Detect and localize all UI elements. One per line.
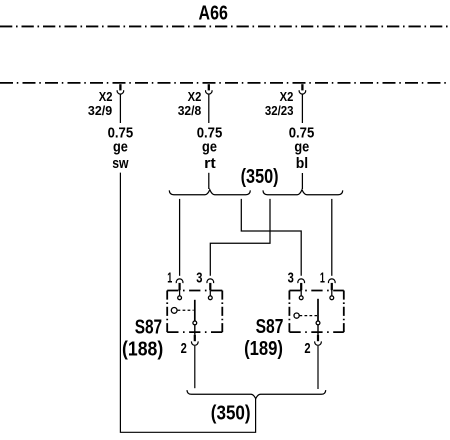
svg-text:S87: S87 <box>256 316 284 338</box>
S87(189) actuator pole circle <box>294 313 299 318</box>
S87(189) pin 3 lead into box <box>300 289 302 296</box>
switch S87(189) box left edge <box>288 291 290 333</box>
svg-text:(350): (350) <box>211 402 251 424</box>
S87(189) pin 2 tick <box>317 335 319 342</box>
switch S87(188) box left edge <box>166 291 168 333</box>
svg-text:X2: X2 <box>280 89 294 104</box>
switch S87(188) box top edge <box>167 290 222 292</box>
svg-text:1: 1 <box>320 270 325 287</box>
S87(188) actuator pole circle <box>171 308 177 314</box>
S87(188) pin 3 socket cap <box>207 279 214 283</box>
S87(188) pin 2 socket cup <box>191 341 198 345</box>
switch S87(188) box right edge <box>221 291 223 333</box>
S87(188) pin 3 lead into box <box>209 289 211 296</box>
svg-text:rt: rt <box>204 155 216 172</box>
switch S87(189) box top edge <box>289 290 343 292</box>
connector X2 pin 32/9 (pin tick) <box>119 84 121 90</box>
wire splice to S87(188) pin 3 (crossing) <box>210 199 270 276</box>
S87(188) arm contact circle <box>193 321 197 325</box>
svg-text:ge: ge <box>113 139 128 156</box>
svg-text:S87: S87 <box>135 317 162 339</box>
svg-text:1: 1 <box>167 270 172 287</box>
wire from X2 32/9 (upper segment) <box>119 95 121 124</box>
S87(189) pin 3 socket cap <box>298 279 305 283</box>
splice (350) right brace <box>263 190 343 195</box>
svg-text:32/8: 32/8 <box>178 103 202 118</box>
connector X2 pin 32/8 (socket cup) <box>205 90 212 94</box>
S87(189) pin 1 tick <box>331 283 333 290</box>
S87(188) pin 3 tick <box>209 283 211 290</box>
connector X2 pin 32/8 (pin tick) <box>208 84 210 90</box>
S87(188) pin 1 lead into box <box>179 289 181 296</box>
svg-text:(350): (350) <box>241 166 279 188</box>
harness / connector boundary line (dash-dot) <box>0 82 450 84</box>
svg-text:ge: ge <box>294 139 309 156</box>
svg-text:32/23: 32/23 <box>265 103 294 118</box>
wire ge/sw long run down, bottom run right, up to splice (350) tip <box>120 173 255 433</box>
S87(188) switch arm <box>194 300 196 321</box>
S87(189) pin 2 socket cup <box>315 341 322 345</box>
S87(189) pin 3 tick <box>300 283 302 290</box>
splice node (350) bottom brace <box>187 390 326 399</box>
svg-text:X2: X2 <box>99 89 113 104</box>
wire splice to S87(189) pin 3 (crossing) <box>241 199 301 276</box>
svg-text:(189): (189) <box>244 338 283 360</box>
switch S87(189) box right edge <box>343 291 345 333</box>
S87(189) pin 1 lead into box <box>331 289 333 296</box>
svg-text:ge: ge <box>202 139 217 156</box>
S87(188) arm lead to pin 2 <box>194 325 196 335</box>
splice (350) left brace <box>169 190 250 195</box>
wire from X2 32/23 (upper segment) <box>301 95 303 124</box>
wire S87(189) pin 2 to bottom splice <box>317 346 319 389</box>
S87(189) pin 1 socket cap <box>328 279 335 283</box>
svg-text:2: 2 <box>304 340 310 357</box>
S87(188) pin 2 tick <box>194 335 196 342</box>
svg-text:2: 2 <box>181 340 187 357</box>
S87(189) pin 3 contact circle <box>299 296 303 300</box>
svg-text:A66: A66 <box>199 3 228 25</box>
wire ge/rt lower segment to splice brace <box>208 173 210 189</box>
wire splice to S87(189) pin 1 <box>331 199 333 276</box>
wire ge/bl lower segment to splice brace <box>301 173 303 189</box>
S87(189) pin 1 contact circle <box>330 296 334 300</box>
S87(189) arm contact circle <box>316 321 320 325</box>
S87(188) pin 1 contact circle <box>178 296 182 300</box>
switch S87(189) box bottom edge <box>289 331 343 333</box>
S87(189) switch arm <box>317 299 319 321</box>
S87(189) arm lead to pin 2 <box>317 325 319 335</box>
svg-text:(188): (188) <box>122 339 163 361</box>
wire S87(188) pin 2 to bottom splice <box>194 346 196 388</box>
control unit A66 boundary line (top dash-dot) <box>0 25 450 27</box>
wire splice to S87(188) pin 1 <box>179 199 181 276</box>
svg-text:X2: X2 <box>188 89 202 104</box>
svg-text:bl: bl <box>296 155 308 172</box>
svg-text:3: 3 <box>288 270 294 287</box>
S87(188) pin 3 contact circle <box>208 296 212 300</box>
connector X2 pin 32/23 (socket cup) <box>299 90 306 94</box>
S87(189) actuator dashed link <box>300 315 318 317</box>
S87(188) pin 1 tick <box>179 283 181 290</box>
svg-text:32/9: 32/9 <box>88 103 112 118</box>
connector X2 pin 32/9 (socket cup) <box>117 90 124 94</box>
S87(188) pin 1 socket cap <box>176 279 183 283</box>
S87(188) actuator dashed link <box>178 309 194 311</box>
wire from X2 32/8 (upper segment) <box>208 95 210 124</box>
svg-text:sw: sw <box>112 155 129 172</box>
switch S87(188) box bottom edge <box>167 331 222 333</box>
connector X2 pin 32/23 (pin tick) <box>301 84 303 90</box>
svg-text:3: 3 <box>196 270 202 287</box>
